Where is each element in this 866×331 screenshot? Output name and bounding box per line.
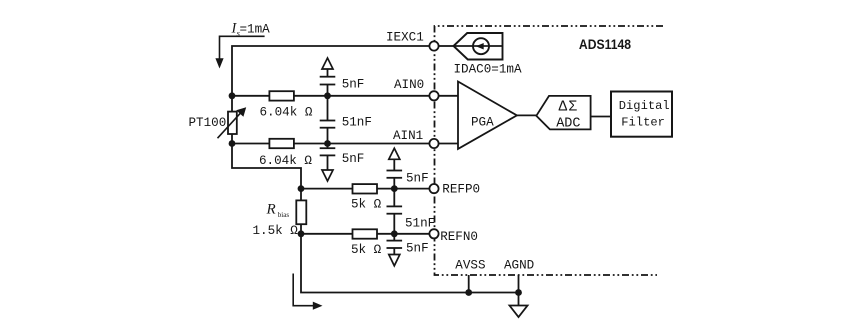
- svg-text:IDAC0=1mA: IDAC0=1mA: [454, 62, 522, 76]
- svg-text:5k Ω: 5k Ω: [351, 243, 382, 257]
- svg-text:5k Ω: 5k Ω: [351, 198, 382, 212]
- svg-text:AIN0: AIN0: [394, 78, 424, 92]
- svg-text:6.04k Ω: 6.04k Ω: [260, 106, 313, 120]
- svg-text:ΔΣ: ΔΣ: [559, 99, 579, 115]
- svg-text:AGND: AGND: [504, 258, 534, 272]
- svg-text:PGA: PGA: [471, 116, 494, 130]
- svg-text:6.04k Ω: 6.04k Ω: [259, 154, 312, 168]
- svg-text:5nF: 5nF: [342, 152, 365, 166]
- svg-text:AVSS: AVSS: [455, 258, 485, 272]
- svg-text:bias: bias: [278, 211, 290, 219]
- svg-text:R: R: [266, 201, 276, 217]
- svg-text:51nF: 51nF: [405, 217, 435, 231]
- svg-text:5nF: 5nF: [406, 242, 429, 256]
- svg-text:5nF: 5nF: [342, 78, 365, 92]
- svg-text:ADS1148: ADS1148: [579, 36, 631, 52]
- svg-text:AIN1: AIN1: [393, 129, 423, 143]
- svg-text:=1mA: =1mA: [240, 23, 271, 37]
- svg-text:REFP0: REFP0: [442, 183, 480, 197]
- svg-text:REFN0: REFN0: [440, 230, 478, 244]
- svg-text:Filter: Filter: [621, 115, 665, 129]
- svg-text:PT100: PT100: [189, 116, 227, 130]
- svg-text:Digital: Digital: [619, 99, 670, 113]
- svg-text:5nF: 5nF: [406, 171, 429, 185]
- svg-text:1.5k Ω: 1.5k Ω: [253, 224, 299, 238]
- svg-text:51nF: 51nF: [342, 116, 372, 130]
- svg-text:ADC: ADC: [556, 117, 580, 132]
- svg-text:IEXC1: IEXC1: [386, 31, 424, 45]
